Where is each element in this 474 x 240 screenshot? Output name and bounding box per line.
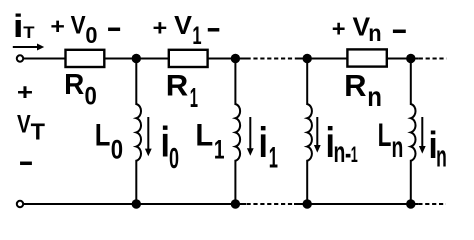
label +Vn- (voltage across Rn) — [332, 11, 407, 49]
svg-text:1: 1 — [192, 23, 201, 50]
wire vertical Ln-1 branch lower segment — [306, 160, 308, 204]
svg-text:R: R — [344, 68, 366, 103]
svg-text:−: − — [19, 146, 33, 181]
label +V1- (voltage across R1) — [152, 11, 220, 50]
wire vertical Ln-1 branch upper segment — [306, 59, 308, 106]
svg-text:1: 1 — [214, 134, 225, 164]
svg-text:R: R — [64, 68, 84, 101]
svg-text:i: i — [259, 119, 268, 167]
node C top (Ln-1 junction) — [303, 54, 312, 63]
label R0 value — [64, 68, 97, 110]
arrow i1 current (points down) — [247, 117, 254, 156]
label i0 (branch current) — [161, 119, 179, 175]
node D bottom — [406, 199, 415, 208]
svg-text:V: V — [352, 11, 370, 41]
wire bottom rail dashed segment — [247, 203, 295, 205]
label in (branch current) — [428, 124, 446, 174]
svg-text:T: T — [23, 23, 34, 42]
wire bottom rail dashed tail at far right — [418, 203, 446, 205]
svg-text:1: 1 — [351, 142, 358, 167]
resistor R0 body — [66, 50, 105, 67]
label in-1 (branch current) — [326, 119, 358, 170]
arrow iT current direction (points right) — [13, 44, 44, 51]
svg-text:+: + — [152, 16, 167, 41]
label +V0- (voltage across R0) — [50, 10, 121, 48]
svg-text:V: V — [71, 11, 86, 40]
wire vertical L0 branch lower segment — [135, 160, 137, 204]
resistor R1 body — [169, 50, 208, 67]
wire bottom rail right solid segment — [294, 203, 418, 205]
svg-text:1: 1 — [269, 142, 278, 175]
svg-text:i: i — [13, 8, 24, 44]
svg-text:0: 0 — [85, 23, 97, 49]
svg-text:−: − — [107, 10, 121, 46]
inductor L1 coil — [235, 104, 240, 161]
label iT (input current) — [13, 8, 35, 44]
svg-text:+: + — [17, 80, 33, 105]
svg-text:T: T — [31, 118, 45, 144]
wire vertical L1 branch upper segment — [234, 59, 236, 106]
svg-text:+: + — [332, 16, 346, 42]
wire vertical L0 branch upper segment — [135, 59, 137, 106]
wire bottom rail left solid segment — [23, 203, 246, 205]
svg-text:−: − — [392, 14, 407, 49]
inductor L0 coil — [136, 104, 141, 161]
wire top rail dashed tail at far right — [419, 58, 447, 60]
svg-text:1: 1 — [190, 82, 198, 113]
wire vertical Ln branch lower segment — [410, 160, 412, 204]
svg-text:i: i — [161, 119, 170, 167]
label L0 value — [95, 118, 123, 165]
resistor Rn body — [347, 49, 386, 66]
svg-text:V: V — [174, 11, 192, 40]
svg-text:L: L — [378, 117, 392, 153]
terminal bottom-left (input - terminal) — [17, 201, 23, 207]
label Ln value — [378, 117, 404, 164]
node A bottom — [132, 199, 141, 208]
node B top (R1-L1 junction) — [231, 54, 240, 63]
terminal top-left (input + terminal) — [17, 55, 23, 61]
label VT (port voltage) — [17, 109, 45, 144]
node D top (Ln junction) — [406, 54, 415, 63]
label i1 (branch current) — [259, 119, 278, 175]
svg-text:L: L — [195, 118, 213, 153]
arrow in current (points down) — [419, 117, 426, 154]
label Rn value — [344, 68, 382, 112]
svg-text:-: - — [345, 137, 351, 171]
svg-text:n: n — [334, 136, 346, 169]
node B bottom — [231, 199, 240, 208]
wire vertical Ln branch upper segment — [410, 59, 412, 106]
svg-text:−: − — [207, 12, 220, 48]
svg-text:0: 0 — [169, 143, 179, 175]
svg-text:V: V — [17, 109, 31, 138]
svg-text:R: R — [166, 69, 189, 102]
svg-text:n: n — [367, 80, 382, 112]
inductor Ln-1 coil — [307, 104, 312, 161]
svg-text:n: n — [368, 20, 381, 46]
svg-text:0: 0 — [85, 82, 97, 111]
wire top rail right solid segment — [296, 58, 419, 60]
svg-text:n: n — [392, 131, 404, 164]
label L1 value — [195, 118, 224, 165]
arrow i0 current (points down) — [145, 117, 152, 156]
svg-text:0: 0 — [111, 136, 123, 166]
node A top (R0-L0 junction) — [132, 54, 141, 63]
wire top rail left solid segment — [23, 58, 247, 60]
svg-text:L: L — [95, 118, 111, 153]
node C bottom — [303, 199, 312, 208]
wire top rail dashed segment between node B and node C — [247, 58, 296, 60]
svg-text:n: n — [436, 141, 447, 174]
inductor Ln coil — [411, 104, 416, 161]
label R1 value — [166, 69, 198, 113]
wire vertical L1 branch lower segment — [234, 160, 236, 204]
arrow in-1 current (points down) — [314, 117, 321, 153]
svg-text:+: + — [50, 15, 65, 40]
